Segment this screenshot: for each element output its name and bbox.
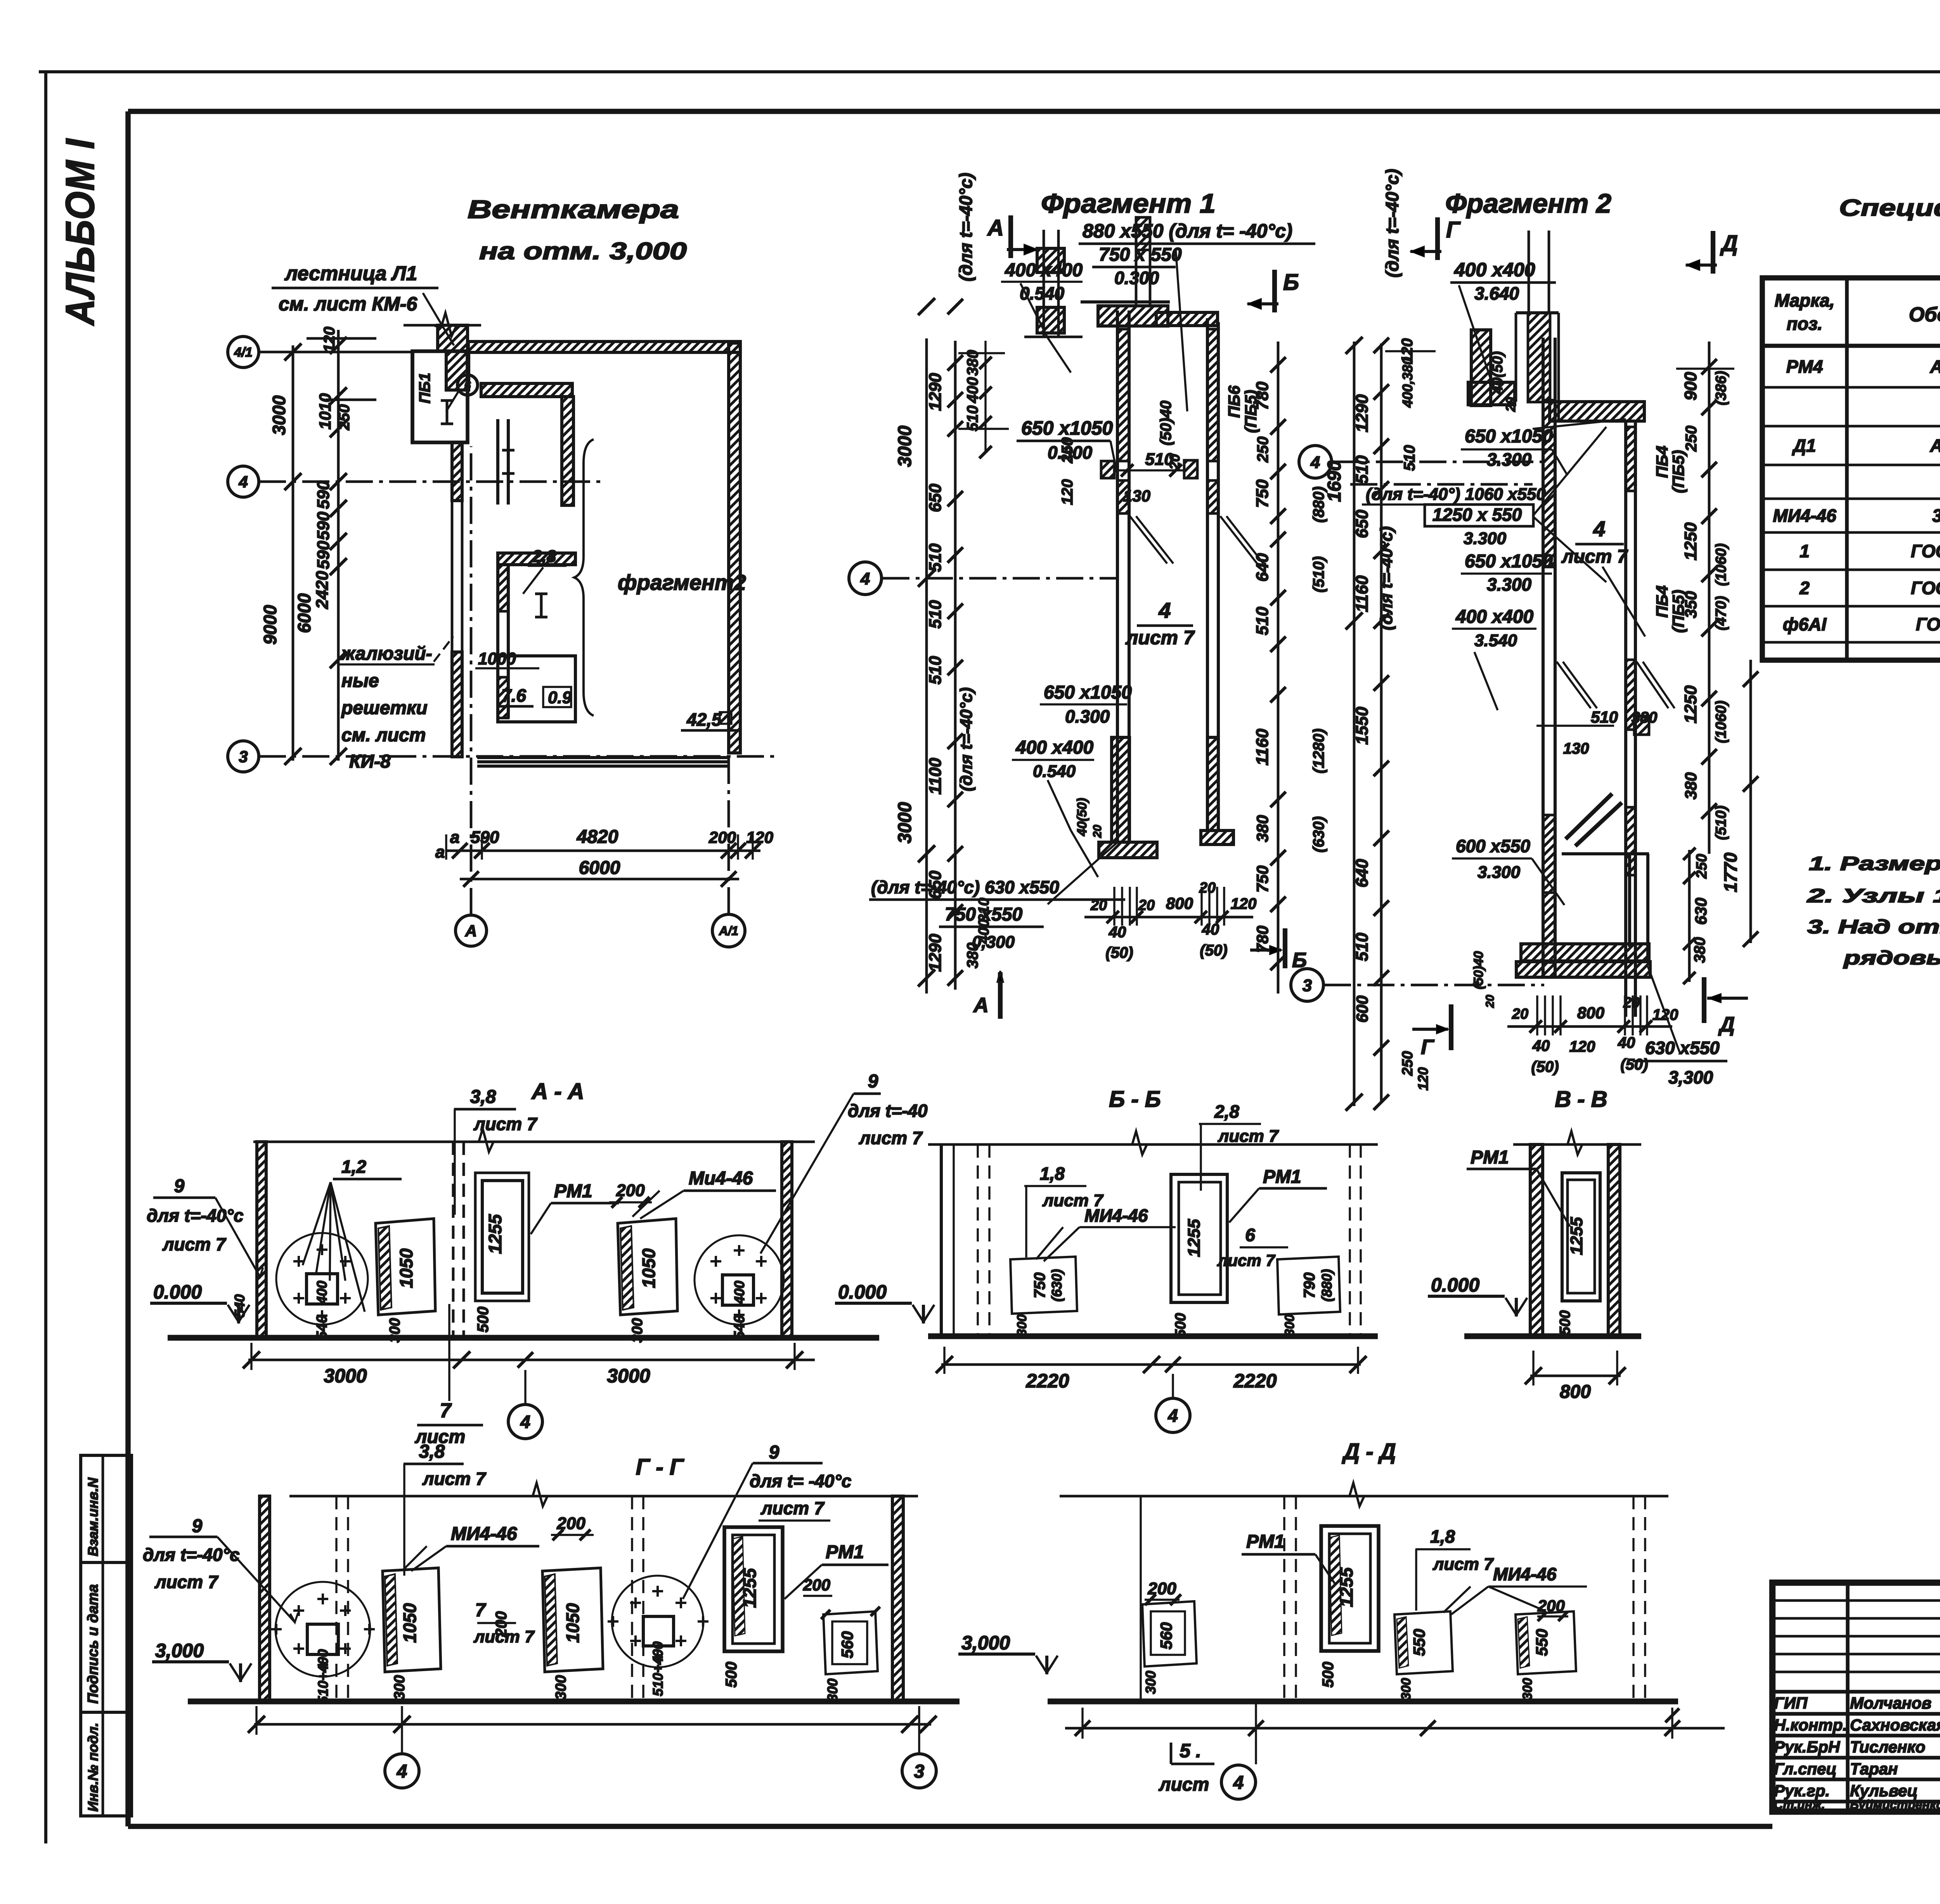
svg-text:750: 750 xyxy=(1031,1273,1048,1299)
svg-text:510: 510 xyxy=(964,406,981,432)
svg-text:1,8: 1,8 xyxy=(1430,1526,1455,1547)
svg-text:3.300: 3.300 xyxy=(1487,449,1532,470)
svg-text:40: 40 xyxy=(1202,921,1219,938)
svg-text:(1280): (1280) xyxy=(1310,728,1327,773)
svg-text:9: 9 xyxy=(868,1071,878,1092)
svg-text:ПБ6: ПБ6 xyxy=(1225,385,1243,418)
svg-text:510+400: 510+400 xyxy=(650,1641,666,1696)
svg-text:4: 4 xyxy=(397,1761,407,1782)
svg-text:лист 7: лист 7 xyxy=(1125,627,1195,649)
svg-text:(386): (386) xyxy=(1713,371,1729,406)
svg-text:3,8: 3,8 xyxy=(419,1441,445,1462)
svg-text:2: 2 xyxy=(1799,578,1810,598)
svg-text:3: 3 xyxy=(239,747,248,766)
svg-text:1255: 1255 xyxy=(485,1214,505,1254)
svg-text:130: 130 xyxy=(1563,740,1589,757)
svg-text:Д - Д: Д - Д xyxy=(1341,1439,1396,1464)
svg-text:4: 4 xyxy=(860,569,870,588)
svg-text:Альбом III: Альбом III xyxy=(1930,435,1940,456)
svg-text:0.000: 0.000 xyxy=(1431,1274,1479,1296)
svg-text:(для t=-40°c): (для t=-40°c) xyxy=(957,687,976,791)
svg-text:Гл.спец: Гл.спец xyxy=(1774,1760,1836,1778)
svg-text:Г: Г xyxy=(1446,217,1461,243)
svg-text:1. Размеры в скобках даны: 1. Размеры в скобках даны для t = -40°с. xyxy=(1809,853,1940,874)
svg-text:РМ1: РМ1 xyxy=(826,1542,864,1562)
svg-text:4: 4 xyxy=(520,1412,530,1432)
svg-text:3: 3 xyxy=(1303,976,1312,995)
svg-text:РМ1: РМ1 xyxy=(554,1181,592,1202)
svg-text:120: 120 xyxy=(1059,479,1076,505)
svg-text:300: 300 xyxy=(1399,1678,1413,1700)
svg-text:650 х1050: 650 х1050 xyxy=(1465,426,1553,447)
svg-text:120: 120 xyxy=(1415,1067,1431,1091)
svg-text:ПБ4: ПБ4 xyxy=(1653,446,1671,478)
svg-text:40: 40 xyxy=(1618,1034,1635,1051)
svg-text:ф6АI: ф6АI xyxy=(1783,614,1827,635)
svg-text:(для t=-40°c): (для t=-40°c) xyxy=(1382,169,1402,277)
svg-text:(630): (630) xyxy=(1049,1269,1065,1302)
svg-text:лист 7: лист 7 xyxy=(1432,1555,1494,1574)
svg-text:20: 20 xyxy=(1503,397,1518,412)
svg-text:400 х400: 400 х400 xyxy=(1015,737,1094,758)
svg-text:20: 20 xyxy=(1091,825,1104,838)
svg-text:20: 20 xyxy=(1623,995,1640,1011)
svg-text:560: 560 xyxy=(1157,1622,1175,1649)
svg-text:3000: 3000 xyxy=(895,802,915,843)
svg-text:400: 400 xyxy=(731,1281,747,1304)
svg-text:780: 780 xyxy=(1253,926,1271,953)
svg-text:510: 510 xyxy=(1401,445,1418,471)
svg-text:Марка,: Марка, xyxy=(1775,290,1835,310)
svg-text:3,000: 3,000 xyxy=(155,1640,204,1661)
svg-text:0,300: 0,300 xyxy=(972,933,1015,952)
svg-text:750 х 550: 750 х 550 xyxy=(1099,245,1182,265)
svg-text:(510): (510) xyxy=(1310,556,1327,592)
svg-text:А: А xyxy=(987,215,1004,241)
svg-text:250: 250 xyxy=(1254,437,1271,463)
svg-text:3.540: 3.540 xyxy=(1474,631,1517,650)
svg-text:120: 120 xyxy=(1231,895,1257,912)
svg-text:0.300: 0.300 xyxy=(1048,442,1093,463)
svg-text:510: 510 xyxy=(926,543,945,572)
svg-text:6000: 6000 xyxy=(579,858,620,878)
svg-text:см. лист КМ-6: см. лист КМ-6 xyxy=(279,293,417,315)
svg-text:1050: 1050 xyxy=(639,1248,659,1288)
svg-text:590: 590 xyxy=(314,541,333,569)
svg-text:(510): (510) xyxy=(1713,806,1729,840)
svg-text:фрагмент2: фрагмент2 xyxy=(618,570,746,595)
svg-text:1,8: 1,8 xyxy=(1040,1164,1065,1184)
svg-text:лист: лист xyxy=(1159,1774,1209,1795)
svg-text:500: 500 xyxy=(1557,1310,1573,1335)
svg-text:650 х1050: 650 х1050 xyxy=(1021,417,1113,439)
svg-text:лист 7: лист 7 xyxy=(1218,1127,1279,1146)
svg-text:300: 300 xyxy=(1015,1314,1029,1337)
svg-text:590: 590 xyxy=(314,512,333,540)
svg-text:250: 250 xyxy=(1694,854,1710,879)
svg-text:250: 250 xyxy=(1683,426,1700,452)
svg-text:Взам.инв.N: Взам.инв.N xyxy=(85,1477,101,1556)
svg-text:1255: 1255 xyxy=(1567,1217,1586,1255)
svg-text:300: 300 xyxy=(824,1679,840,1702)
svg-text:для t=-40: для t=-40 xyxy=(848,1101,928,1121)
svg-text:3000: 3000 xyxy=(269,395,289,435)
svg-text:4: 4 xyxy=(1233,1772,1244,1793)
svg-text:РМ1: РМ1 xyxy=(1246,1531,1285,1552)
svg-text:(для t=-40°c): (для t=-40°c) xyxy=(1377,526,1396,630)
svg-text:540: 540 xyxy=(314,1315,330,1339)
svg-text:лист 7: лист 7 xyxy=(154,1572,219,1592)
svg-text:7: 7 xyxy=(475,1600,487,1621)
svg-text:350: 350 xyxy=(1682,591,1700,618)
svg-text:Б: Б xyxy=(1283,270,1299,295)
svg-text:лист 7: лист 7 xyxy=(859,1128,923,1148)
svg-text:20: 20 xyxy=(1199,880,1216,896)
svg-text:400: 400 xyxy=(314,1281,330,1304)
svg-text:Тисленко: Тисленко xyxy=(1850,1738,1925,1756)
svg-text:300: 300 xyxy=(629,1318,646,1342)
svg-text:1290: 1290 xyxy=(1353,394,1372,432)
svg-text:3,300: 3,300 xyxy=(1668,1067,1713,1087)
svg-text:0.300: 0.300 xyxy=(1065,706,1110,727)
svg-text:Подпись и дата: Подпись и дата xyxy=(85,1584,101,1704)
svg-text:Рук.БрН: Рук.БрН xyxy=(1774,1738,1841,1756)
svg-text:560: 560 xyxy=(838,1631,856,1658)
svg-text:40: 40 xyxy=(1532,1037,1550,1054)
svg-text:Обозначение: Обозначение xyxy=(1909,303,1940,326)
svg-text:20: 20 xyxy=(1484,995,1497,1008)
svg-text:(50)40: (50)40 xyxy=(1471,951,1486,989)
svg-text:540: 540 xyxy=(232,1294,248,1318)
svg-text:40(50): 40(50) xyxy=(1490,351,1506,394)
svg-text:лестница Л1: лестница Л1 xyxy=(284,262,417,285)
svg-text:4: 4 xyxy=(1158,598,1171,623)
svg-text:4: 4 xyxy=(1593,517,1605,541)
svg-text:500: 500 xyxy=(723,1662,740,1688)
svg-text:630 х550: 630 х550 xyxy=(1645,1038,1720,1058)
svg-text:Ст.инж.: Ст.инж. xyxy=(1774,1798,1825,1812)
svg-text:540: 540 xyxy=(731,1315,748,1339)
svg-text:640: 640 xyxy=(1353,859,1372,888)
svg-text:Инв.№ подл.: Инв.№ подл. xyxy=(85,1723,101,1812)
svg-text:1250: 1250 xyxy=(1681,522,1700,560)
svg-text:(для t=-40°c) 630 х550: (для t=-40°c) 630 х550 xyxy=(871,877,1059,897)
svg-text:1290: 1290 xyxy=(926,934,945,972)
svg-text:200: 200 xyxy=(1147,1579,1176,1598)
svg-text:9: 9 xyxy=(769,1442,779,1463)
svg-text:(630): (630) xyxy=(1310,816,1327,852)
svg-text:3000: 3000 xyxy=(895,425,915,467)
svg-text:40(50): 40(50) xyxy=(1075,798,1090,836)
svg-text:9000: 9000 xyxy=(260,605,280,645)
svg-text:510: 510 xyxy=(1591,708,1618,726)
svg-text:лист 7: лист 7 xyxy=(1561,546,1628,567)
svg-text:380: 380 xyxy=(1253,815,1271,842)
svg-text:500: 500 xyxy=(1320,1662,1337,1688)
svg-text:400 х400: 400 х400 xyxy=(1455,607,1534,627)
svg-text:Кульвец: Кульвец xyxy=(1850,1782,1918,1800)
svg-text:Альбом III: Альбом III xyxy=(1930,357,1940,377)
svg-text:780: 780 xyxy=(1253,381,1272,410)
svg-text:790: 790 xyxy=(1301,1273,1318,1299)
svg-text:300: 300 xyxy=(387,1318,403,1342)
svg-text:6: 6 xyxy=(1245,1225,1255,1245)
svg-text:1,2: 1,2 xyxy=(341,1157,366,1177)
svg-text:510: 510 xyxy=(1353,933,1372,961)
svg-text:510: 510 xyxy=(1253,607,1272,635)
svg-text:1160: 1160 xyxy=(1253,728,1272,765)
svg-text:на отм. 3,000: на отм. 3,000 xyxy=(479,238,687,265)
svg-text:200: 200 xyxy=(493,1611,510,1638)
svg-text:А/1: А/1 xyxy=(719,924,738,938)
svg-text:1050: 1050 xyxy=(396,1248,416,1288)
svg-text:2220: 2220 xyxy=(1025,1370,1069,1392)
svg-text:1250: 1250 xyxy=(1681,685,1700,723)
svg-text:А - А: А - А xyxy=(531,1079,584,1104)
svg-text:(ПБ5): (ПБ5) xyxy=(1669,450,1687,493)
svg-text:630: 630 xyxy=(1692,898,1710,925)
svg-text:2. Узлы 1÷9 см. лист 7.: 2. Узлы 1÷9 см. лист 7. xyxy=(1807,885,1940,907)
svg-text:300: 300 xyxy=(1143,1671,1159,1694)
svg-text:40: 40 xyxy=(1109,924,1126,941)
svg-text:200: 200 xyxy=(803,1576,830,1594)
svg-text:0.9: 0.9 xyxy=(548,688,572,707)
svg-text:РМ1: РМ1 xyxy=(1263,1167,1301,1187)
svg-text:800: 800 xyxy=(1560,1382,1591,1402)
svg-text:1550: 1550 xyxy=(1353,707,1372,745)
svg-text:600: 600 xyxy=(1353,995,1371,1023)
svg-text:А: А xyxy=(465,922,477,940)
svg-text:4: 4 xyxy=(1167,1406,1178,1426)
svg-text:550: 550 xyxy=(1533,1629,1551,1656)
svg-text:0.000: 0.000 xyxy=(153,1281,202,1303)
svg-text:6000: 6000 xyxy=(294,593,314,633)
svg-text:120: 120 xyxy=(746,828,773,846)
svg-text:(для t=-40°) 1060 х550: (для t=-40°) 1060 х550 xyxy=(1366,485,1546,504)
svg-text:800: 800 xyxy=(1577,1004,1604,1022)
svg-text:Г: Г xyxy=(1421,1035,1435,1059)
svg-text:ПБ4: ПБ4 xyxy=(1653,585,1671,617)
svg-text:4/1: 4/1 xyxy=(234,345,252,360)
svg-text:1690: 1690 xyxy=(1324,460,1345,502)
svg-text:4820: 4820 xyxy=(577,827,618,847)
svg-text:1290: 1290 xyxy=(926,373,945,411)
svg-text:АЛЬБОМ I: АЛЬБОМ I xyxy=(58,138,103,326)
svg-text:7: 7 xyxy=(440,1399,452,1422)
svg-text:РМ4: РМ4 xyxy=(1786,357,1823,377)
svg-text:Д1: Д1 xyxy=(1792,435,1816,456)
svg-text:Г - Г: Г - Г xyxy=(636,1455,684,1480)
svg-text:(50): (50) xyxy=(1200,942,1227,959)
svg-text:600 х550: 600 х550 xyxy=(1456,836,1530,856)
svg-text:(50): (50) xyxy=(1620,1056,1648,1073)
svg-text:ГОСТ 15589-70: ГОСТ 15589-70 xyxy=(1911,541,1940,561)
svg-text:4: 4 xyxy=(1310,453,1320,472)
svg-text:ные: ные xyxy=(341,671,379,691)
svg-text:3. Над отверстиями 200÷700: 3. Над отверстиями 200÷700 выполнить xyxy=(1807,916,1940,938)
svg-text:2,8: 2,8 xyxy=(1214,1101,1239,1122)
svg-text:900: 900 xyxy=(1681,372,1700,401)
svg-text:3.300: 3.300 xyxy=(1464,529,1507,548)
svg-text:640: 640 xyxy=(1253,553,1272,582)
svg-text:380: 380 xyxy=(1682,772,1700,799)
svg-text:400 х400: 400 х400 xyxy=(1454,259,1535,281)
svg-text:250: 250 xyxy=(336,404,353,431)
svg-text:510: 510 xyxy=(1353,455,1372,484)
svg-text:лист 7: лист 7 xyxy=(473,1114,538,1134)
svg-text:300: 300 xyxy=(1282,1314,1297,1337)
svg-text:ГОСТ 5781-82: ГОСТ 5781-82 xyxy=(1916,614,1940,635)
svg-text:МИ4-46: МИ4-46 xyxy=(451,1524,517,1544)
svg-text:120: 120 xyxy=(1569,1038,1595,1055)
svg-text:Б - Б: Б - Б xyxy=(1109,1087,1161,1112)
svg-text:1000: 1000 xyxy=(478,649,516,668)
svg-text:3,8: 3,8 xyxy=(470,1087,496,1107)
svg-text:3.400-6/76: 3.400-6/76 xyxy=(1932,506,1940,526)
svg-text:750 х550: 750 х550 xyxy=(945,904,1023,925)
svg-text:ГИП: ГИП xyxy=(1774,1694,1808,1712)
svg-text:5 .: 5 . xyxy=(1180,1740,1201,1762)
svg-text:ГОСТ 15526-70: ГОСТ 15526-70 xyxy=(1911,578,1940,598)
svg-text:400: 400 xyxy=(964,377,981,404)
svg-text:510: 510 xyxy=(926,600,945,629)
svg-text:поз.: поз. xyxy=(1787,314,1822,334)
svg-text:3000: 3000 xyxy=(324,1365,367,1387)
svg-text:В - В: В - В xyxy=(1555,1087,1607,1112)
svg-text:0.000: 0.000 xyxy=(838,1281,887,1303)
svg-text:Рук.гр.: Рук.гр. xyxy=(1774,1782,1830,1800)
svg-text:(50): (50) xyxy=(1105,944,1133,961)
svg-text:1255: 1255 xyxy=(1336,1567,1356,1607)
svg-text:20: 20 xyxy=(1138,897,1155,914)
svg-text:1255: 1255 xyxy=(740,1568,760,1608)
svg-text:1255: 1255 xyxy=(1185,1219,1204,1257)
svg-text:Буймистренко: Буймистренко xyxy=(1850,1798,1940,1812)
svg-text:510: 510 xyxy=(926,656,945,685)
svg-text:590: 590 xyxy=(471,828,499,847)
svg-text:Сахновская: Сахновская xyxy=(1850,1716,1940,1734)
svg-text:2420: 2420 xyxy=(313,571,332,609)
svg-text:ПБ1: ПБ1 xyxy=(416,373,433,403)
svg-text:см. лист: см. лист xyxy=(341,725,426,746)
svg-text:300: 300 xyxy=(553,1675,569,1699)
svg-text:Фрагмент 2: Фрагмент 2 xyxy=(1445,188,1611,218)
svg-text:650 х1050: 650 х1050 xyxy=(1465,551,1553,572)
svg-text:для t= -40°c: для t= -40°c xyxy=(750,1471,851,1491)
svg-text:лист 7: лист 7 xyxy=(760,1498,825,1518)
svg-text:880 х550 (для t= -40°c): 880 х550 (для t= -40°c) xyxy=(1083,220,1292,242)
svg-text:(для t=-40°c): (для t=-40°c) xyxy=(956,173,976,281)
svg-text:решетки: решетки xyxy=(341,698,428,718)
svg-text:2220: 2220 xyxy=(1233,1370,1277,1392)
svg-text:(1060): (1060) xyxy=(1713,543,1729,586)
svg-text:650: 650 xyxy=(926,484,945,512)
svg-text:1160: 1160 xyxy=(1353,575,1372,612)
svg-text:20: 20 xyxy=(1090,897,1107,914)
svg-text:20: 20 xyxy=(1167,454,1183,470)
svg-text:400 х400: 400 х400 xyxy=(1005,260,1083,281)
svg-text:(50)40: (50)40 xyxy=(1157,401,1174,446)
svg-text:650: 650 xyxy=(1353,510,1372,538)
svg-text:КИ-8: КИ-8 xyxy=(349,751,391,772)
svg-text:9: 9 xyxy=(192,1516,203,1536)
svg-text:Спецификация изделий на вен: Спецификация изделий на венткамеры xyxy=(1839,195,1940,221)
svg-text:(470): (470) xyxy=(1713,596,1729,631)
svg-text:1050: 1050 xyxy=(563,1603,583,1643)
svg-text:РМ1: РМ1 xyxy=(1471,1147,1509,1168)
svg-text:МИ4-46: МИ4-46 xyxy=(1084,1205,1148,1226)
svg-text:500: 500 xyxy=(475,1307,492,1333)
svg-text:300: 300 xyxy=(391,1675,408,1699)
svg-text:120: 120 xyxy=(1652,1006,1678,1023)
svg-text:a: a xyxy=(435,843,445,862)
svg-text:3,000: 3,000 xyxy=(961,1632,1010,1654)
svg-text:250: 250 xyxy=(1400,1051,1416,1076)
svg-text:800: 800 xyxy=(1166,894,1193,912)
svg-text:Таран: Таран xyxy=(1850,1760,1898,1778)
svg-text:(1060): (1060) xyxy=(1713,701,1729,743)
svg-text:лист 7: лист 7 xyxy=(422,1469,487,1489)
svg-text:500: 500 xyxy=(1173,1313,1189,1337)
svg-text:0.540: 0.540 xyxy=(1033,762,1076,781)
svg-text:А: А xyxy=(973,994,989,1017)
svg-text:300: 300 xyxy=(1520,1678,1535,1700)
svg-text:3.300: 3.300 xyxy=(1487,574,1532,595)
svg-text:3.640: 3.640 xyxy=(1474,283,1519,303)
svg-text:жалюзий-: жалюзий- xyxy=(340,643,432,664)
svg-text:590: 590 xyxy=(314,480,333,509)
svg-text:200: 200 xyxy=(708,828,736,846)
svg-text:1100: 1100 xyxy=(926,758,945,794)
svg-text:(880): (880) xyxy=(1319,1269,1335,1302)
svg-text:2,8: 2,8 xyxy=(532,547,556,566)
svg-text:9: 9 xyxy=(174,1176,185,1197)
svg-text:6: 6 xyxy=(464,379,471,392)
svg-text:4: 4 xyxy=(238,473,248,491)
svg-text:1770: 1770 xyxy=(1720,852,1741,892)
svg-text:Д: Д xyxy=(1720,231,1738,256)
svg-text:20: 20 xyxy=(1512,1006,1528,1022)
svg-text:650 х1050: 650 х1050 xyxy=(1044,682,1132,703)
svg-text:7.6: 7.6 xyxy=(501,685,526,706)
svg-text:510+400: 510+400 xyxy=(315,1649,331,1704)
svg-text:Фрагмент 1: Фрагмент 1 xyxy=(1041,188,1216,218)
svg-text:Молчанов: Молчанов xyxy=(1850,1694,1931,1712)
svg-text:3: 3 xyxy=(914,1761,925,1782)
svg-text:МИ4-46: МИ4-46 xyxy=(1493,1564,1557,1584)
svg-text:Д: Д xyxy=(1718,1013,1735,1036)
svg-text:лист 7: лист 7 xyxy=(1217,1251,1275,1269)
svg-text:550: 550 xyxy=(1410,1629,1428,1656)
svg-text:750: 750 xyxy=(1253,865,1271,893)
svg-text:380: 380 xyxy=(1632,709,1658,726)
svg-text:рядовые перемычки по узлу: рядовые перемычки по узлу 8 на листе 7. xyxy=(1843,947,1940,969)
svg-text:400,380: 400,380 xyxy=(1400,357,1415,408)
svg-text:(50): (50) xyxy=(1531,1058,1559,1075)
svg-text:1: 1 xyxy=(1800,541,1810,561)
svg-text:750: 750 xyxy=(1253,479,1272,508)
svg-text:для t=-40°c: для t=-40°c xyxy=(143,1545,240,1565)
svg-text:3.300: 3.300 xyxy=(1478,863,1521,882)
svg-text:Н.контр.: Н.контр. xyxy=(1774,1716,1847,1734)
svg-text:42,5: 42,5 xyxy=(686,709,722,730)
svg-text:Ми4-46: Ми4-46 xyxy=(689,1168,753,1189)
svg-text:1250 х 550: 1250 х 550 xyxy=(1432,505,1522,525)
svg-text:3000: 3000 xyxy=(607,1365,650,1387)
svg-text:лист 7: лист 7 xyxy=(162,1234,227,1254)
svg-text:a: a xyxy=(450,828,459,847)
svg-text:МИ4-46: МИ4-46 xyxy=(1773,506,1836,526)
